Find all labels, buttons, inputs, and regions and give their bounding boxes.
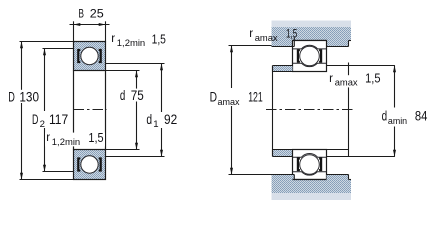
shield right, bottom section (left figure)	[99, 157, 102, 171]
svg-text:r: r	[249, 27, 253, 40]
ball, top section (left figure)	[81, 47, 98, 64]
svg-text:2: 2	[40, 119, 45, 130]
dimension d 75	[106, 71, 140, 150]
outer ring raceway, top section (right figure)	[293, 45, 327, 49]
svg-text:D: D	[210, 90, 218, 105]
housing block, top (right figure)	[272, 21, 352, 47]
inner ring raceway, top section (right figure)	[293, 63, 327, 66]
label D2 117	[30, 112, 69, 128]
label r_amax 1,5 (top, over housing)	[249, 27, 297, 43]
shield left, top section (right figure)	[297, 49, 300, 63]
shield left, bottom section (right figure)	[297, 158, 300, 172]
housing block, bottom (right figure)	[272, 175, 352, 201]
shaft step surfaces at d_a diameter (right figure)	[327, 66, 395, 157]
shield left, top section (left figure)	[77, 49, 80, 63]
svg-text:1,5: 1,5	[365, 72, 380, 86]
shield right, top section (right figure)	[319, 49, 322, 63]
dimension d_amin 84	[393, 66, 396, 157]
svg-text:r: r	[329, 72, 333, 85]
dimension D2 117	[43, 49, 74, 172]
label r 1,2min 1,5 (top)	[111, 32, 166, 48]
dimension d1 92	[106, 64, 165, 157]
svg-text:r: r	[46, 131, 50, 144]
svg-text:r: r	[111, 32, 115, 45]
centerline (right figure)	[266, 109, 353, 111]
dimension B 25	[70, 21, 110, 41]
shield right, top section (left figure)	[99, 49, 102, 63]
dimension D_amax 121	[229, 46, 272, 175]
label d1 92	[144, 112, 179, 128]
svg-text:84: 84	[415, 108, 428, 123]
svg-text:1,5: 1,5	[286, 27, 297, 41]
svg-text:d: d	[146, 112, 152, 127]
ball, bottom section (left figure)	[81, 156, 98, 173]
svg-text:B: B	[78, 9, 84, 21]
ball, bottom section (right figure)	[300, 155, 320, 175]
svg-text:1,2min: 1,2min	[52, 136, 80, 147]
shield left, bottom section (left figure)	[77, 157, 80, 171]
bearing outer+inner ring section, top (left figure)	[74, 42, 106, 71]
bearing section, top (right figure)	[293, 41, 327, 72]
housing shoulder faces, left side (drawn over bearing edge)	[272, 38, 295, 47]
shaft abutment spacer, bottom-left (right figure)	[273, 150, 293, 157]
svg-text:amax: amax	[255, 32, 278, 43]
svg-text:1,5: 1,5	[152, 32, 166, 46]
svg-text:1,2min: 1,2min	[117, 37, 145, 48]
svg-text:amin: amin	[388, 115, 407, 126]
bearing bore side walls (left figure)	[74, 71, 106, 150]
label D 130	[6, 90, 41, 103]
shield right, bottom section (right figure)	[319, 158, 322, 172]
svg-text:117: 117	[49, 112, 68, 127]
bearing section, bottom (right figure)	[293, 150, 327, 180]
shaft abutment spacer, top-left (right figure)	[273, 66, 293, 72]
svg-text:d: d	[120, 88, 125, 103]
svg-text:25: 25	[90, 9, 104, 21]
svg-text:121: 121	[248, 90, 263, 105]
svg-text:D: D	[8, 90, 15, 105]
centerline (left figure)	[74, 109, 107, 111]
label r 1,2min 1,5 (bottom)	[45, 133, 105, 147]
shaft outline (right figure)	[273, 63, 349, 157]
ball, top section (right figure)	[300, 46, 320, 66]
label r_amax 1,5 (middle right)	[334, 75, 359, 87]
dimension D 130	[20, 42, 74, 180]
svg-text:amax: amax	[335, 76, 358, 87]
svg-text:75: 75	[131, 88, 144, 103]
label d_amin 84	[380, 108, 429, 126]
svg-text:92: 92	[164, 112, 177, 127]
svg-text:d: d	[382, 109, 388, 124]
svg-text:1,5: 1,5	[88, 131, 103, 145]
outer ring raceway, bottom section (right figure)	[293, 154, 327, 158]
svg-text:amax: amax	[218, 96, 240, 107]
svg-text:1: 1	[153, 119, 158, 130]
inner ring raceway, bottom section (right figure)	[293, 172, 327, 175]
svg-text:130: 130	[19, 90, 39, 105]
bearing ring section, bottom (left figure)	[74, 150, 106, 180]
label d 75	[117, 89, 145, 102]
svg-text:D: D	[32, 112, 39, 127]
